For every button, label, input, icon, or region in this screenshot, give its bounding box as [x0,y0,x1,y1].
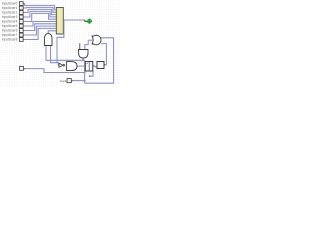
svg-text:InputUser7: InputUser7 [2,33,18,37]
svg-text:InputUser0: InputUser0 [2,2,18,6]
svg-text:InputUser2: InputUser2 [2,11,18,15]
svg-text:InputUser3: InputUser3 [2,15,18,19]
svg-text:InputUser6: InputUser6 [2,29,18,33]
svg-text:clock: clock [60,79,67,83]
svg-text:InputUser8: InputUser8 [2,38,18,42]
svg-text:InputUser1: InputUser1 [2,6,18,10]
svg-text:InputUser5: InputUser5 [2,24,18,28]
svg-text:InputUser4: InputUser4 [2,20,18,24]
